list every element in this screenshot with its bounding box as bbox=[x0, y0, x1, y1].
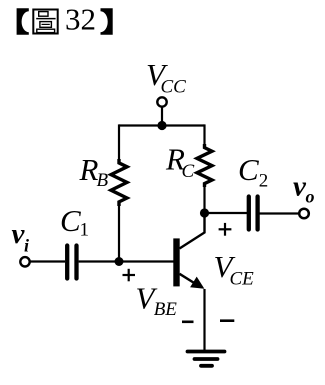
terminal vi bbox=[20, 257, 29, 266]
title glyph 圖 bbox=[33, 10, 57, 34]
transistor Q1 emitter lead bbox=[180, 274, 199, 286]
svg-text:C: C bbox=[182, 161, 195, 182]
wire input to C1 bbox=[30, 260, 65, 262]
svg-text:32: 32 bbox=[65, 2, 96, 37]
plus sign at base bbox=[123, 269, 136, 282]
resistor RB bbox=[111, 159, 127, 206]
svg-text:i: i bbox=[24, 236, 29, 256]
label VBE bbox=[136, 281, 178, 321]
title bracket right bbox=[101, 8, 113, 35]
svg-text:CC: CC bbox=[161, 77, 187, 98]
transistor Q1 collector lead bbox=[180, 212, 205, 249]
label vi bbox=[12, 218, 30, 256]
svg-text:C: C bbox=[60, 203, 81, 238]
svg-text:2: 2 bbox=[259, 170, 269, 191]
svg-text:o: o bbox=[306, 187, 315, 207]
label RC bbox=[165, 142, 195, 182]
wire left rail lower bbox=[118, 205, 120, 262]
node collector junction bbox=[200, 208, 209, 217]
terminal VCC bbox=[157, 97, 166, 106]
label VCC bbox=[146, 57, 186, 98]
wire C1 to base bbox=[79, 260, 174, 262]
wire right rail lower bbox=[203, 186, 205, 213]
node base junction bbox=[115, 257, 124, 266]
svg-text:CE: CE bbox=[230, 268, 255, 289]
wire left rail upper bbox=[118, 124, 120, 160]
label VCE bbox=[214, 249, 255, 289]
resistor RC bbox=[197, 144, 212, 187]
capacitor C1 bbox=[67, 246, 76, 279]
node VCC junction bbox=[157, 121, 166, 130]
ground bbox=[188, 352, 225, 366]
wire top rail bbox=[119, 124, 205, 126]
label vo bbox=[293, 171, 315, 207]
transistor Q1 emitter arrow bbox=[190, 277, 204, 289]
wire emitter down bbox=[203, 289, 205, 351]
title bracket left bbox=[17, 8, 29, 35]
minus sign right of emitter bbox=[220, 319, 234, 322]
terminal vo bbox=[299, 209, 309, 219]
minus sign left of emitter bbox=[182, 320, 194, 323]
svg-text:C: C bbox=[238, 152, 259, 187]
wire C2 to vo bbox=[260, 212, 299, 214]
svg-text:1: 1 bbox=[80, 220, 90, 241]
svg-text:BE: BE bbox=[154, 299, 178, 320]
svg-text:B: B bbox=[97, 170, 109, 191]
wire VCC stem bbox=[161, 107, 163, 126]
svg-text:R: R bbox=[79, 152, 99, 187]
label C1 bbox=[60, 203, 89, 241]
label C2 bbox=[238, 152, 268, 191]
wire right rail upper bbox=[203, 124, 205, 145]
plus sign at collector bbox=[219, 223, 232, 236]
transistor Q1 base bar bbox=[173, 238, 179, 286]
label RB bbox=[79, 152, 109, 191]
capacitor C2 bbox=[249, 197, 258, 230]
wire collector to C2 bbox=[205, 212, 248, 214]
